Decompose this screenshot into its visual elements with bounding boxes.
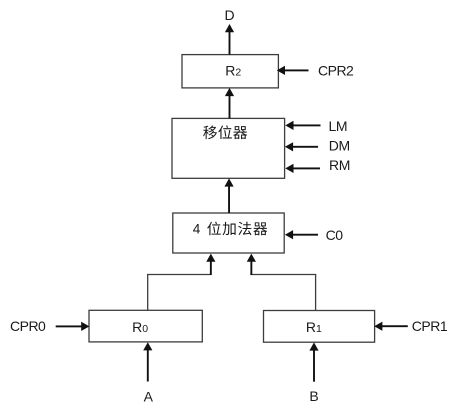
register R0 box [89, 310, 202, 342]
svg-text:DM: DM [329, 138, 350, 154]
svg-text:CPR1: CPR1 [412, 318, 448, 334]
arrow shifter to R2 [229, 95, 231, 118]
arrow D output from R2 [229, 31, 231, 55]
label 移位器 (shifter) [203, 125, 217, 139]
arrow LM into shifter [292, 124, 321, 126]
svg-text:RM: RM [329, 157, 350, 173]
wire R1 top vertical [315, 275, 317, 311]
arrow DM into shifter [291, 146, 318, 148]
arrow right adder input [250, 260, 252, 276]
svg-text:CPR2: CPR2 [318, 63, 354, 79]
4-bit adder box (4位加法器) [173, 213, 284, 253]
svg-text:LM: LM [329, 118, 348, 134]
wire R0 top vertical [147, 275, 149, 311]
arrow RM into shifter [292, 167, 321, 169]
svg-text:4: 4 [193, 222, 201, 237]
svg-text:C0: C0 [326, 227, 344, 243]
shifter box (移位器) [172, 118, 285, 178]
svg-text:D: D [225, 7, 235, 23]
svg-text:CPR0: CPR0 [10, 318, 46, 334]
arrow A into R0 [147, 349, 149, 382]
arrow CPR0 into R0 [56, 325, 83, 327]
svg-text:B: B [309, 388, 318, 404]
arrow adder to shifter [228, 186, 230, 214]
arrow B into R1 [313, 349, 315, 382]
arrow left adder input [210, 260, 212, 276]
arrow CPR1 into R1 [381, 325, 408, 327]
wire R0-to-adder horizontal [147, 274, 211, 276]
register R2 box [182, 55, 278, 88]
label 4位加法器 glyphs [207, 222, 221, 236]
arrow CPR2 into R2 [284, 69, 309, 71]
wire R1-to-adder horizontal [250, 274, 316, 276]
register R1 box [264, 311, 375, 343]
arrow C0 into adder [291, 234, 318, 236]
svg-text:A: A [144, 389, 154, 405]
